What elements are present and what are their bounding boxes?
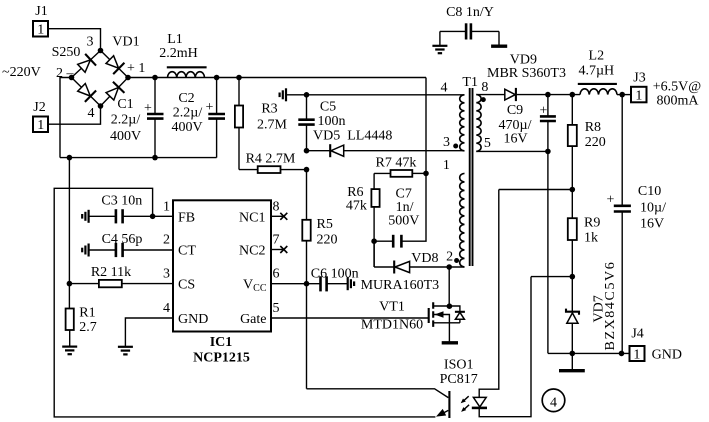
- svg-text:8: 8: [273, 200, 280, 215]
- svg-text:R5: R5: [317, 217, 333, 232]
- svg-text:VD8: VD8: [411, 251, 438, 266]
- wire clamp bottom row (VD8 to T1 pin 2): [374, 241, 464, 267]
- wire secondary bottom row (T1 pin5 to C9): [476, 149, 550, 155]
- wire secondary output top row: [476, 94, 631, 96]
- svg-text:100n: 100n: [318, 114, 346, 129]
- svg-text:+ 1: + 1: [127, 61, 145, 76]
- capacitor C8 1n/Y: [440, 5, 499, 45]
- connector J1: [33, 4, 48, 38]
- svg-text:1: 1: [633, 348, 640, 363]
- label circled 4: [542, 389, 565, 412]
- svg-text:J2: J2: [33, 100, 45, 115]
- svg-text:T1: T1: [462, 75, 478, 90]
- svg-text:NC1: NC1: [239, 210, 265, 225]
- svg-text:3: 3: [87, 35, 94, 50]
- connector J4 GND: [630, 327, 682, 363]
- svg-text:C8 1n/Y: C8 1n/Y: [446, 5, 494, 20]
- svg-text:2.2mH: 2.2mH: [159, 46, 198, 61]
- svg-text:1k: 1k: [584, 231, 598, 246]
- svg-text:220: 220: [585, 135, 606, 150]
- inductor L1 2.2mH: [159, 32, 206, 78]
- svg-text:+: +: [607, 193, 615, 208]
- capacitor C9 470u/16V: [499, 95, 556, 152]
- svg-text:NC2: NC2: [239, 243, 265, 258]
- svg-text:VD5 LL4448: VD5 LL4448: [313, 129, 392, 144]
- svg-text:6: 6: [273, 267, 280, 282]
- wire Gate pin to VT1 gate: [271, 317, 429, 319]
- pin 7 NC2 stub with x: [271, 246, 287, 253]
- wire snubber top (C5 to T1 pin 4): [286, 92, 465, 98]
- capacitor C10 10u/16V: [607, 95, 667, 354]
- capacitor C4 56p: [82, 232, 173, 257]
- node VD9 to C9: [545, 92, 551, 98]
- svg-text:4.7µH: 4.7µH: [578, 64, 614, 79]
- wire secondary ground rail: [548, 351, 630, 357]
- svg-text:+: +: [540, 104, 548, 119]
- svg-text:4: 4: [441, 81, 448, 96]
- svg-text:400V: 400V: [110, 129, 141, 144]
- resistor R5 220: [302, 170, 337, 389]
- node rail to control section: [67, 155, 73, 161]
- wire J1 to bridge AC node 3: [48, 29, 101, 51]
- svg-text:+: +: [144, 101, 152, 116]
- svg-text:IC1: IC1: [210, 335, 233, 350]
- wire bridge node 2 down to primary negative rail: [60, 78, 72, 158]
- resistor R9 1k: [568, 190, 601, 277]
- svg-text:2 –: 2 –: [56, 66, 75, 81]
- wire VD5 row (to T1 pin 3): [304, 148, 465, 154]
- ground under R1: [62, 347, 77, 355]
- svg-text:2: 2: [163, 233, 170, 248]
- wire Vcc pin row: [271, 281, 321, 287]
- resistor R7 47k clamp: [374, 156, 429, 177]
- svg-text:10µ/: 10µ/: [640, 201, 666, 216]
- svg-text:1: 1: [37, 23, 44, 38]
- capacitor C7 1n/500V clamp: [371, 173, 426, 247]
- svg-text:L2: L2: [589, 49, 605, 64]
- capacitor C3 10n: [82, 193, 173, 223]
- diode VD5 LL4448: [313, 129, 392, 158]
- svg-text:J3: J3: [633, 71, 645, 86]
- bridge rectifier VD1 S250: [52, 35, 146, 122]
- svg-text:7: 7: [273, 233, 280, 248]
- connector J3 output: [631, 71, 701, 109]
- svg-text:2.2µ/: 2.2µ/: [111, 113, 141, 128]
- svg-text:C5: C5: [320, 100, 336, 115]
- svg-text:R1: R1: [79, 305, 95, 320]
- svg-text:5: 5: [273, 301, 280, 316]
- svg-text:1: 1: [635, 89, 642, 104]
- svg-text:CT: CT: [178, 243, 196, 258]
- svg-text:4: 4: [88, 106, 95, 121]
- svg-text:ISO1: ISO1: [444, 358, 474, 373]
- svg-text:3: 3: [443, 135, 450, 150]
- optocoupler ISO1 PC817 phototransistor: [307, 358, 478, 419]
- svg-text:MTD1N60: MTD1N60: [361, 318, 423, 333]
- svg-text:4: 4: [550, 395, 557, 410]
- wire rail node down left column: [68, 158, 70, 309]
- capacitor C5 100n: [298, 95, 345, 151]
- svg-text:VD1: VD1: [112, 35, 139, 50]
- svg-text:R9: R9: [584, 216, 600, 231]
- svg-text:S250: S250: [52, 45, 81, 60]
- svg-text:GND: GND: [652, 348, 682, 363]
- svg-text:J4: J4: [631, 327, 643, 342]
- svg-text:C9: C9: [507, 103, 523, 118]
- wire C9 bottom down to secondary ground rail: [547, 151, 549, 353]
- svg-text:FB: FB: [178, 210, 195, 225]
- resistor R3 2.7M: [235, 75, 288, 170]
- svg-text:+: +: [206, 100, 214, 115]
- wire feedback loop (FB node up over and down to opto emitter): [54, 188, 435, 417]
- svg-text:R4 2.7M: R4 2.7M: [246, 152, 296, 167]
- wire R9 bottom to opto-LED cathode branch: [531, 274, 575, 280]
- svg-text:2: 2: [446, 249, 453, 264]
- IC U1 NCP1215 body: [163, 200, 280, 366]
- capacitor C6 100n: [311, 266, 359, 291]
- zener diode VD7 BZX84C5V6: [566, 261, 618, 354]
- svg-text:C2: C2: [178, 91, 194, 106]
- chassis bar secondary ground: [559, 353, 585, 370]
- label MURA160T3 for VD8: [361, 278, 440, 293]
- svg-text:Gate: Gate: [240, 312, 266, 327]
- diode VD9 MBR S360T3: [487, 52, 566, 101]
- svg-text:VT1: VT1: [379, 300, 405, 315]
- resistor R4 2.7M: [239, 152, 309, 174]
- connector J2: [33, 100, 48, 133]
- svg-text:1: 1: [443, 158, 450, 173]
- inductor L2 4.7uH: [570, 49, 626, 98]
- chassis bar at C8 right (secondary): [491, 45, 507, 48]
- diode VD8 MURA160T3: [394, 251, 438, 274]
- chassis stub at C5 snubber wire: [280, 88, 286, 101]
- svg-text:NCP1215: NCP1215: [193, 351, 250, 366]
- wire HV positive rail: [128, 77, 426, 79]
- svg-text:3: 3: [163, 267, 170, 282]
- resistor R2 11k: [67, 265, 173, 287]
- node FB: [150, 214, 156, 220]
- svg-text:J1: J1: [35, 4, 47, 19]
- capacitor C2 2.2u/400V: [171, 75, 225, 158]
- svg-text:800mA: 800mA: [657, 94, 700, 109]
- svg-text:GND: GND: [178, 312, 208, 327]
- svg-text:C3 10n: C3 10n: [101, 193, 142, 208]
- resistor R8 220: [568, 95, 606, 190]
- wire primary negative rail: [60, 157, 217, 159]
- wire HV rail corner down to clamp node: [425, 78, 427, 174]
- svg-text:400V: 400V: [171, 120, 202, 135]
- resistor R1 2.7: [66, 305, 97, 346]
- svg-text:16V: 16V: [640, 217, 664, 232]
- transformer T1: [441, 75, 491, 267]
- svg-text:CS: CS: [178, 277, 195, 292]
- wire T1 pin2 node down to VT1 drain: [447, 267, 453, 309]
- svg-text:+6.5V@: +6.5V@: [653, 80, 702, 95]
- svg-text:R8: R8: [585, 120, 601, 135]
- svg-text:220: 220: [317, 232, 338, 247]
- node C1 bottom: [152, 155, 158, 161]
- svg-text:2.7M: 2.7M: [257, 118, 288, 133]
- optocoupler ISO1 LED: [472, 190, 531, 417]
- svg-text:1: 1: [37, 118, 44, 133]
- svg-text:4: 4: [163, 301, 170, 316]
- svg-text:2.7: 2.7: [79, 320, 97, 335]
- svg-text:L1: L1: [167, 32, 183, 47]
- svg-text:C6 100n: C6 100n: [311, 266, 359, 281]
- chassis bar under VT1 source: [442, 341, 458, 344]
- svg-text:C4 56p: C4 56p: [102, 232, 143, 247]
- svg-text:PC817: PC817: [440, 372, 478, 387]
- pin 8 NC1 stub with x: [271, 213, 287, 220]
- svg-text:R3: R3: [261, 102, 277, 117]
- wire J2 to bridge AC node 4: [48, 106, 101, 124]
- label ~220V: [2, 65, 41, 80]
- wire IC GND pin to ground: [125, 318, 173, 347]
- svg-text:5: 5: [484, 136, 491, 151]
- svg-text:MURA160T3: MURA160T3: [361, 278, 440, 293]
- svg-text:C1: C1: [117, 97, 133, 112]
- svg-text:BZX84C5V6: BZX84C5V6: [603, 261, 618, 351]
- capacitor C1 2.2u/400V: [110, 75, 164, 158]
- svg-text:47k: 47k: [346, 199, 367, 214]
- svg-text:MBR S360T3: MBR S360T3: [487, 66, 566, 81]
- svg-text:1: 1: [163, 200, 170, 215]
- node VD8 to drain: [446, 264, 452, 270]
- svg-text:~220V: ~220V: [2, 65, 41, 80]
- ground under IC GND: [118, 347, 133, 355]
- ground at C8 left (primary): [432, 46, 447, 53]
- transistor VT1 MTD1N60: [361, 300, 465, 342]
- resistor R6 47k clamp: [346, 173, 380, 267]
- wire R8 bottom to opto-LED branch: [499, 187, 575, 193]
- svg-text:16V: 16V: [504, 132, 528, 147]
- svg-text:R2 11k: R2 11k: [91, 265, 131, 280]
- svg-text:2.2µ/: 2.2µ/: [173, 106, 203, 121]
- svg-text:8: 8: [481, 80, 488, 95]
- svg-text:500V: 500V: [388, 214, 419, 229]
- svg-text:C10: C10: [638, 184, 661, 199]
- svg-text:R7 47k: R7 47k: [376, 156, 417, 171]
